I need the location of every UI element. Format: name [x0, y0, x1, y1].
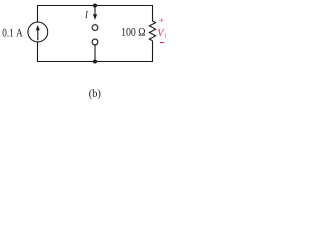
polarity label minus — [160, 42, 164, 43]
resistor 100 ohm — [149, 21, 155, 41]
wire left upper segment — [37, 5, 39, 22]
wire bottom-left segment — [38, 61, 96, 63]
wire top-right segment — [95, 5, 153, 7]
wire switch to bottom node — [94, 45, 96, 62]
caption (b) — [89, 89, 100, 99]
switch (open) — [92, 25, 98, 45]
wire bottom-right segment — [95, 61, 153, 63]
current arrow I — [93, 6, 97, 20]
label I — [85, 11, 88, 18]
wire right upper segment — [152, 5, 154, 21]
voltage label V1 — [158, 29, 166, 38]
node junction top — [93, 4, 97, 8]
wire right lower segment — [152, 41, 154, 62]
wire left lower segment — [37, 42, 39, 62]
polarity label plus — [159, 18, 163, 22]
value label 0.1 A — [3, 29, 23, 37]
wire top-left segment — [38, 5, 96, 7]
node junction bottom — [93, 60, 97, 64]
value label 100 ohm — [122, 28, 145, 36]
current source — [28, 22, 48, 42]
